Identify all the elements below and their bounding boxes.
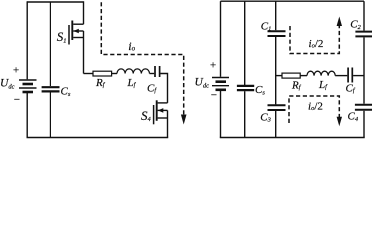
svg-text:Cf: Cf — [346, 83, 356, 95]
capacitor C3 — [268, 105, 286, 110]
svg-text:Rf: Rf — [291, 80, 302, 92]
capacitor Cs left — [42, 87, 60, 91]
svg-text:C4: C4 — [348, 111, 359, 123]
inductor Lf right — [307, 71, 335, 75]
arrowhead io/2 bottom — [337, 117, 342, 127]
svg-text:io/2: io/2 — [308, 100, 323, 112]
wire inductor to Cf right — [335, 75, 347, 77]
svg-text:C3: C3 — [260, 111, 271, 123]
svg-text:C1: C1 — [261, 20, 272, 32]
current arrow io/2 top dashed — [290, 26, 339, 54]
capacitor Cs right — [237, 86, 254, 90]
wire right border upper — [363, 1, 365, 30]
svg-text:−: − — [13, 94, 20, 106]
svg-text:Lf: Lf — [127, 77, 137, 89]
resistor Rf left — [93, 71, 112, 76]
battery Udc left — [19, 80, 37, 92]
capacitor Cf right — [348, 68, 352, 83]
svg-text:Udc: Udc — [195, 77, 210, 90]
svg-text:+: + — [12, 65, 19, 77]
wire right left-border lower — [220, 91, 222, 138]
svg-text:S4: S4 — [141, 108, 152, 123]
svg-text:−: − — [210, 90, 217, 102]
svg-text:Cs: Cs — [61, 86, 71, 98]
current arrow io dashed path — [101, 2, 183, 115]
wire Cs branch upper — [49, 2, 51, 86]
wire Cs right branch upper — [244, 1, 246, 85]
wire C3 to bottom rail — [275, 111, 277, 138]
resistor Rf right — [282, 73, 300, 78]
wire C1C3 branch upper — [275, 1, 277, 30]
wire C4 to bottom rail — [363, 111, 365, 138]
transistor S4 — [154, 100, 168, 137]
svg-text:Lf: Lf — [318, 79, 328, 91]
wire C1 to C3 segment — [275, 37, 277, 104]
current arrow io/2 bottom dashed — [289, 96, 339, 123]
transistor S1 — [69, 1, 84, 73]
svg-text:+: + — [209, 60, 216, 72]
wire top rail left circuit — [27, 1, 83, 3]
capacitor C2 — [355, 32, 372, 37]
wire inductor to Cf — [150, 73, 155, 75]
svg-text:Cf: Cf — [147, 82, 157, 94]
wire Cs right branch lower — [244, 91, 246, 137]
wire left border upper segment — [26, 1, 28, 79]
battery Udc right — [212, 78, 229, 90]
arrowhead io/2 top — [337, 17, 342, 27]
wire Cs branch lower — [49, 93, 51, 138]
wire resistor to inductor right — [300, 75, 307, 77]
svg-text:Cs: Cs — [255, 84, 265, 96]
wire Cf to S4 drain — [160, 74, 167, 103]
wire left border lower segment — [26, 93, 28, 138]
wire C2 to C4 segment — [363, 37, 365, 103]
wire mid branch right to resistor — [276, 75, 282, 77]
inductor Lf left — [117, 69, 149, 74]
wire right left-border upper — [220, 1, 222, 77]
svg-text:Rf: Rf — [95, 77, 106, 89]
capacitor Cf left — [155, 66, 160, 77]
wire Cf right to border — [353, 75, 364, 77]
wire resistor to inductor — [112, 73, 117, 75]
svg-text:Udc: Udc — [0, 78, 15, 91]
svg-text:S1: S1 — [57, 29, 67, 44]
svg-text:io: io — [128, 39, 135, 53]
svg-text:C2: C2 — [350, 19, 361, 31]
capacitor C1 — [268, 31, 286, 36]
wire top rail right circuit — [221, 0, 365, 2]
capacitor C4 — [355, 105, 372, 110]
arrowhead io — [181, 115, 187, 125]
wire bottom rail right circuit — [220, 137, 365, 139]
svg-text:io/2: io/2 — [309, 38, 324, 50]
wire mid branch to resistor — [84, 73, 94, 75]
wire bottom rail left circuit — [27, 137, 169, 139]
